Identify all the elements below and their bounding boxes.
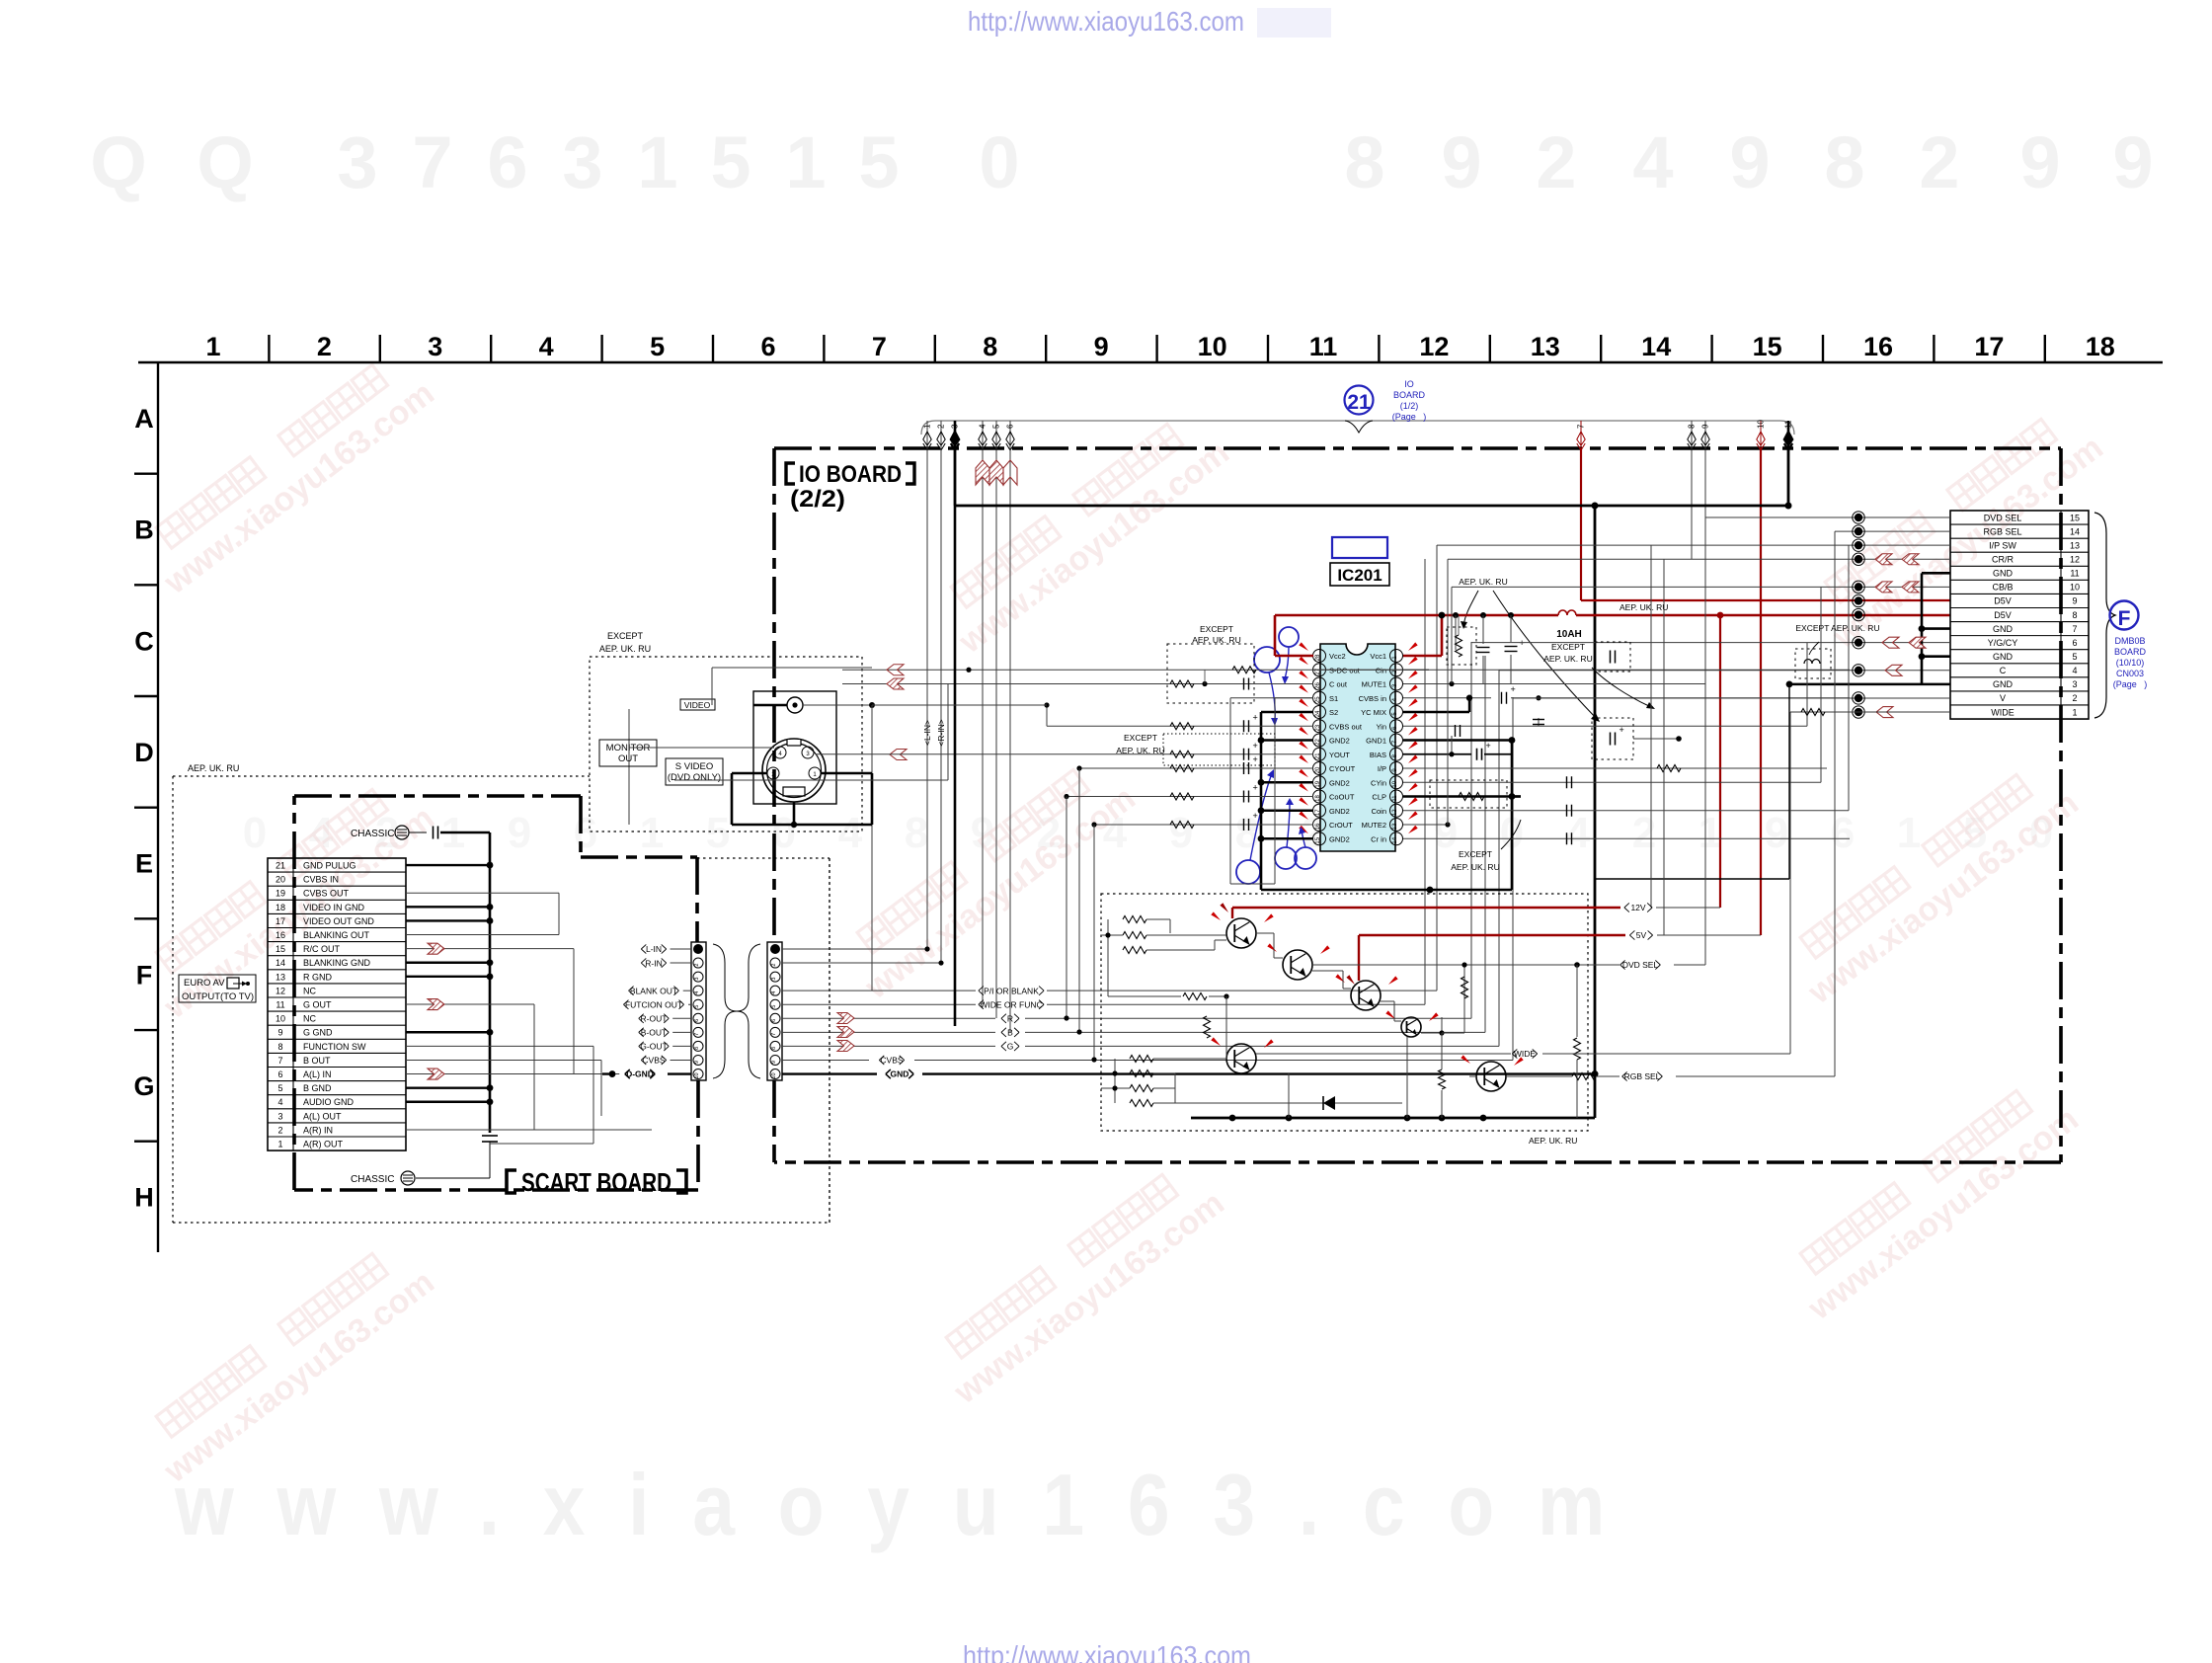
svg-text:FUNCTION SW: FUNCTION SW: [303, 1042, 366, 1052]
svg-text:13: 13: [1531, 332, 1560, 361]
svg-text:GND1: GND1: [1366, 737, 1386, 746]
vertical wire 3 thick: [954, 449, 957, 506]
thick continuation of wire3: [954, 506, 957, 1026]
svg-text:15: 15: [276, 944, 285, 954]
S-video pins: [774, 747, 786, 758]
svg-text:G-OUT: G-OUT: [640, 1042, 667, 1052]
wire video jack left: [753, 704, 787, 707]
vertical wire 7 red: [1580, 449, 1582, 600]
EXCEPT box left of IC (middle): [1163, 734, 1275, 765]
transistor Q4: [1401, 1017, 1421, 1037]
svg-text:EURO AV: EURO AV: [184, 978, 225, 989]
svg-text:10: 10: [1392, 780, 1398, 787]
svg-text:7: 7: [872, 332, 887, 361]
svg-text:S VIDEO: S VIDEO: [675, 761, 714, 772]
svg-text:4: 4: [838, 809, 863, 857]
svg-text:9: 9: [1729, 121, 1770, 203]
strip label G-OUT: [639, 1042, 670, 1051]
IC pin 2 right: [1390, 664, 1403, 676]
svg-text:AEP. UK. RU: AEP. UK. RU: [1451, 862, 1499, 872]
svg-text:6: 6: [487, 121, 527, 203]
top drop wire 5: [995, 421, 997, 449]
thick bus y=512: [955, 505, 1788, 508]
svg-text:<R-IN>: <R-IN>: [936, 719, 946, 746]
svg-text:12: 12: [276, 986, 285, 995]
svg-text:BLANK OUT: BLANK OUT: [630, 986, 677, 995]
RC into pin 20: [1079, 767, 1313, 769]
F row 4 wire: [1499, 670, 1950, 672]
strip label R-OUT: [639, 1014, 670, 1023]
svg-text:F: F: [136, 960, 153, 990]
red Vcc wiring: [1275, 655, 1313, 658]
svg-text:CVBS IN: CVBS IN: [303, 875, 339, 885]
svg-text:VIDEO OUT GND: VIDEO OUT GND: [303, 916, 374, 926]
svg-text:4: 4: [979, 424, 987, 429]
svg-text:D: D: [134, 738, 154, 767]
svg-text:13: 13: [276, 972, 285, 982]
svg-text:1: 1: [637, 121, 677, 203]
svg-text:17: 17: [1315, 809, 1321, 816]
svg-text:EXCEPT: EXCEPT: [1124, 733, 1157, 743]
top drop wire 1: [926, 421, 928, 449]
scart row 17 wire thick: [406, 919, 490, 921]
svg-text:R-IN: R-IN: [645, 958, 662, 968]
svg-text:3: 3: [694, 978, 700, 981]
svg-text:BLANKING OUT: BLANKING OUT: [303, 930, 370, 940]
svg-text:8: 8: [771, 1047, 777, 1050]
svg-text:20: 20: [276, 875, 285, 885]
SCART gnd bus vertical: [489, 832, 492, 1133]
svg-text:WIDE: WIDE: [1991, 707, 2014, 717]
svg-text:5: 5: [694, 1005, 700, 1008]
top drop wire 2: [940, 421, 942, 449]
svg-text:1: 1: [2072, 707, 2077, 717]
svg-text:22: 22: [1315, 739, 1321, 746]
svg-text:10: 10: [1757, 420, 1766, 429]
transistor interconnects: [1107, 950, 1109, 996]
strip label B-OUT: [639, 1028, 670, 1037]
svg-text:NC: NC: [303, 1014, 316, 1024]
svg-text:11: 11: [1392, 795, 1398, 802]
IC pin 1 right: [1390, 650, 1403, 663]
svg-text:7: 7: [412, 121, 452, 203]
scart row 11 wire thin: [406, 1003, 534, 1005]
svg-text:Coin: Coin: [1372, 807, 1386, 816]
dotted AEP.UK.RU region: [173, 775, 590, 777]
svg-text:5: 5: [992, 424, 1001, 429]
strip label FUTCION OUT: [623, 1000, 683, 1009]
svg-text:5: 5: [771, 1005, 777, 1008]
12V red: [1232, 907, 1620, 909]
svg-text:YC MIX: YC MIX: [1361, 708, 1386, 717]
svg-text:19: 19: [1315, 780, 1321, 787]
svg-text:G OUT: G OUT: [303, 1000, 332, 1010]
IC pin 20 left: [1313, 762, 1326, 775]
svg-text:3: 3: [337, 121, 377, 203]
svg-text:8: 8: [1824, 121, 1864, 203]
svg-text:+: +: [1253, 811, 1258, 821]
vertical wires 8,9: [1691, 449, 1693, 559]
watermark top url: [1257, 8, 1331, 38]
F gnd thick net: [1921, 573, 1924, 684]
svg-text:A(L) OUT: A(L) OUT: [303, 1111, 342, 1121]
svg-text:6: 6: [1831, 809, 1855, 857]
F row 14 wire: [1835, 530, 1950, 532]
svg-text:P/I OR BLANK: P/I OR BLANK: [984, 986, 1039, 995]
svg-text:12: 12: [1392, 809, 1398, 816]
IC pin 24 left: [1313, 706, 1326, 719]
svg-text:2: 2: [277, 1125, 282, 1135]
svg-text:CB/B: CB/B: [1992, 583, 2013, 593]
svg-text:11: 11: [1309, 332, 1338, 361]
svg-text:16: 16: [1315, 823, 1321, 830]
svg-text:1: 1: [785, 121, 826, 203]
svg-text:6: 6: [277, 1069, 282, 1079]
svg-text:4: 4: [539, 332, 554, 361]
svg-text:10: 10: [771, 1072, 777, 1078]
svg-text:AEP. UK. RU: AEP. UK. RU: [188, 763, 239, 773]
svg-text:RGB SEL: RGB SEL: [1983, 526, 2021, 536]
svg-text:A(R) IN: A(R) IN: [303, 1125, 333, 1135]
svg-text:G GND: G GND: [303, 1028, 333, 1038]
IC pin 11 right: [1390, 790, 1403, 803]
IC pin 9 right: [1390, 762, 1403, 775]
svg-text:B OUT: B OUT: [303, 1056, 331, 1066]
IC pin 17 left: [1313, 804, 1326, 817]
RC into pin 21: [816, 753, 1313, 755]
SCART BOARD title: [507, 1170, 516, 1193]
EURO AV label box: [179, 975, 256, 1002]
IC pin 21 left: [1313, 748, 1326, 760]
svg-text:4: 4: [2072, 666, 2077, 675]
svg-text:http://www.xiaoyu163.com: http://www.xiaoyu163.com: [968, 6, 1244, 37]
scart row 18 wire thick: [406, 906, 490, 908]
svg-text:G: G: [1007, 1042, 1014, 1052]
svg-text:12V: 12V: [1630, 903, 1645, 912]
svg-text:Y/G/CY: Y/G/CY: [1988, 638, 2018, 648]
svg-text:19: 19: [276, 889, 285, 899]
svg-text:Vcc2: Vcc2: [1329, 652, 1346, 661]
svg-text:6: 6: [694, 1019, 700, 1022]
svg-text:21: 21: [276, 861, 285, 871]
strip label BLANK OUT: [629, 987, 679, 995]
F row 12 wire: [1448, 558, 1950, 560]
svg-text:2: 2: [694, 964, 700, 967]
svg-text:H: H: [134, 1183, 154, 1213]
transistor misc wires: [1225, 933, 1227, 940]
svg-text:<L-IN>: <L-IN>: [922, 720, 932, 746]
svg-text:IC201: IC201: [1337, 566, 1382, 585]
video RCA jack: [787, 697, 803, 713]
frame ruler top: [138, 361, 2163, 363]
svg-text:1: 1: [1698, 809, 1722, 857]
svg-text:F: F: [2118, 607, 2131, 630]
svg-text:9: 9: [2019, 121, 2060, 203]
svg-text:SCART BOARD: SCART BOARD: [521, 1167, 671, 1197]
svg-text:2: 2: [1919, 121, 1959, 203]
svg-text:24: 24: [1315, 710, 1321, 717]
svg-text:D5V: D5V: [1994, 596, 2012, 606]
svg-text:DVD SEL: DVD SEL: [1984, 513, 2022, 522]
svg-text:+: +: [1619, 725, 1624, 735]
scart row 14 wire thick: [406, 962, 490, 964]
svg-text:http://www.xiaoyu163.com: http://www.xiaoyu163.com: [963, 1640, 1251, 1663]
5V red: [1359, 934, 1625, 936]
MONITOR OUT label box: [599, 740, 657, 766]
svg-text:0: 0: [979, 121, 1019, 203]
long cross wires: [872, 704, 1047, 706]
top drop wire 7: [1580, 421, 1582, 449]
svg-text:4: 4: [771, 991, 777, 994]
svg-text:12: 12: [2070, 554, 2080, 564]
IC pin 7 right: [1390, 734, 1403, 747]
svg-text:OUT: OUT: [618, 753, 638, 764]
svg-text:OUTPUT(TO TV): OUTPUT(TO TV): [182, 991, 254, 1002]
svg-text:BOARD: BOARD: [1393, 390, 1426, 400]
svg-text:CYOUT: CYOUT: [1329, 764, 1356, 773]
svg-text:5V: 5V: [1636, 930, 1647, 940]
svg-text:3: 3: [2072, 679, 2077, 689]
svg-text:7: 7: [771, 1033, 777, 1036]
monitor out vertical wire: [628, 709, 630, 825]
IO BOARD boundary box (dash-dot): [774, 446, 2061, 450]
svg-text:AEP. UK. RU: AEP. UK. RU: [1459, 577, 1507, 587]
svg-text:1: 1: [1897, 809, 1921, 857]
svg-text:NC: NC: [303, 986, 316, 995]
transistor Q3: [1351, 981, 1381, 1010]
IC pin 27 left: [1313, 664, 1326, 676]
svg-text:A: A: [134, 404, 154, 434]
svg-text:(2/2): (2/2): [790, 486, 845, 513]
svg-text:2: 2: [317, 332, 332, 361]
svg-text:AEP. UK. RU: AEP. UK. RU: [1543, 654, 1592, 664]
svg-text:Cr in: Cr in: [1371, 834, 1386, 843]
svg-text:www.xiaoyu163.com: www.xiaoyu163.com: [174, 1456, 1648, 1553]
svg-text:AEP. UK. RU: AEP. UK. RU: [1619, 602, 1668, 612]
top drop wire 8: [1691, 421, 1693, 449]
svg-text:1: 1: [277, 1140, 282, 1149]
scart row 7 wire thin: [406, 1059, 601, 1061]
svg-text:R-OUT: R-OUT: [641, 1014, 668, 1024]
scart row 19 wire thin: [406, 892, 559, 894]
bus bottom cap + chassis: [482, 1135, 498, 1137]
svg-text:21: 21: [1315, 752, 1321, 759]
vertical wire 2 to strip pin2: [940, 449, 942, 963]
red D5V row9 wire: [1581, 599, 1950, 601]
svg-text:CLP: CLP: [1372, 793, 1386, 802]
svg-text:+: +: [1253, 783, 1258, 793]
svg-text:CVBS in: CVBS in: [1359, 694, 1386, 703]
thick gnd bus bottom: [1191, 1117, 1595, 1120]
vertical wire 11 thick: [1787, 449, 1790, 506]
svg-text:GND2: GND2: [1329, 737, 1350, 746]
svg-text:2: 2: [2072, 693, 2077, 703]
svg-text:C: C: [134, 626, 154, 656]
scart row 4 wire thick: [406, 1101, 490, 1103]
strip label L-IN: [641, 944, 666, 953]
strip brackets: [713, 944, 737, 1078]
svg-text:AUDIO GND: AUDIO GND: [303, 1097, 355, 1107]
svg-text:10: 10: [694, 1072, 700, 1078]
pin3 wire right: [890, 750, 907, 760]
F row 2 wire: [1513, 697, 1950, 699]
IO BOARD title: [786, 463, 795, 484]
svg-text:9: 9: [277, 1028, 282, 1038]
transistor Q5: [1226, 1044, 1256, 1073]
IC pin 26 left: [1313, 677, 1326, 690]
svg-text:5: 5: [858, 121, 899, 203]
svg-text:(Page ): (Page ): [1392, 412, 1427, 422]
svg-text:CrOUT: CrOUT: [1329, 821, 1353, 830]
svg-text:C out: C out: [1329, 680, 1348, 689]
SCART 21-pin table: [268, 858, 406, 1150]
svg-text:16: 16: [1863, 332, 1893, 361]
svg-text:GND: GND: [1993, 679, 2014, 689]
svg-text:18: 18: [1315, 795, 1321, 802]
F row 15 wire: [1705, 516, 1950, 518]
svg-text:DMB0B: DMB0B: [2114, 636, 2145, 646]
svg-text:Q: Q: [197, 121, 254, 203]
svg-text:8: 8: [694, 1047, 700, 1050]
svg-text:17: 17: [276, 916, 285, 926]
svg-text:B-OUT: B-OUT: [641, 1028, 667, 1038]
svg-text:7: 7: [277, 1056, 282, 1066]
connector strip right: [767, 942, 782, 1080]
transistor Q6: [1476, 1062, 1506, 1091]
svg-text:Q: Q: [90, 121, 147, 203]
svg-text:CN003: CN003: [2116, 669, 2144, 678]
svg-text:3: 3: [562, 121, 602, 203]
svg-text:11: 11: [1784, 420, 1793, 429]
top bracket: [921, 421, 1794, 435]
svg-text:(1/2): (1/2): [1400, 401, 1419, 411]
svg-text:I/P: I/P: [1378, 764, 1386, 773]
scart row 15 wire thin: [406, 948, 574, 950]
svg-text:R: R: [1007, 1014, 1013, 1024]
scart row 9 wire thick: [406, 1031, 490, 1033]
svg-text:2: 2: [1632, 809, 1656, 857]
svg-text:CHASSIC: CHASSIC: [351, 829, 394, 839]
svg-text:10: 10: [276, 1014, 285, 1024]
svg-text:8: 8: [905, 809, 928, 857]
resistor group top-left: [1123, 916, 1146, 923]
svg-text:13: 13: [2070, 540, 2080, 550]
IC pin 16 left: [1313, 819, 1326, 831]
svg-text:+: +: [1253, 741, 1258, 751]
svg-text:16: 16: [276, 930, 285, 940]
svg-text:+: +: [1511, 684, 1516, 694]
svg-text:0: 0: [243, 809, 267, 857]
svg-text:BIAS: BIAS: [1370, 751, 1386, 759]
svg-text:6: 6: [2072, 638, 2077, 648]
IC pin 3 right: [1390, 677, 1403, 690]
svg-text:BOARD: BOARD: [2114, 647, 2147, 657]
transistor Q1: [1226, 918, 1256, 948]
IC pin 15 left: [1313, 832, 1326, 845]
svg-text:D-GND: D-GND: [626, 1069, 654, 1079]
svg-text:15: 15: [1753, 332, 1782, 361]
transistor area dotted box: [1101, 894, 1588, 1131]
diode: [1294, 1102, 1402, 1104]
svg-text:VIDEO IN GND: VIDEO IN GND: [303, 903, 365, 912]
svg-text:2: 2: [1536, 121, 1576, 203]
svg-text:3: 3: [277, 1111, 282, 1121]
svg-text:+: +: [1253, 712, 1258, 722]
svg-text:15: 15: [1315, 836, 1321, 843]
IC pin 5 right: [1390, 706, 1403, 719]
svg-text:11: 11: [276, 1000, 284, 1010]
svg-text:GND: GND: [891, 1069, 909, 1079]
svg-text:CVBS out: CVBS out: [1329, 722, 1363, 731]
svg-text:7: 7: [1577, 424, 1586, 429]
svg-text:5: 5: [706, 809, 730, 857]
svg-text:VIDEO: VIDEO: [684, 700, 711, 710]
red chevrons near F table: [1875, 554, 1892, 565]
wire weave verticals: [533, 1004, 535, 1130]
IC pin 10 right: [1390, 776, 1403, 789]
wire bundle right of IC: [1453, 612, 1459, 618]
svg-text:R/C OUT: R/C OUT: [303, 944, 341, 954]
svg-text:9: 9: [2072, 596, 2077, 606]
svg-text:6: 6: [574, 809, 597, 857]
bundle verticals: [1650, 545, 1652, 908]
svg-text:9: 9: [1701, 424, 1710, 429]
svg-text:B: B: [1007, 1028, 1013, 1038]
vertical wire 1 to strip pin1: [926, 449, 928, 949]
svg-text:18: 18: [276, 903, 285, 912]
svg-text:6: 6: [1006, 424, 1015, 429]
svg-text:14: 14: [1392, 836, 1398, 843]
svg-text:5: 5: [2072, 652, 2077, 662]
RC into pin 16: [1094, 824, 1313, 826]
svg-text:CR/R: CR/R: [1992, 554, 2014, 564]
svg-text:20: 20: [1315, 766, 1321, 773]
svg-text:14: 14: [2070, 526, 2080, 536]
svg-text:Yin: Yin: [1376, 722, 1386, 731]
IC201 value box (blue): [1332, 537, 1387, 558]
svg-text:Vcc1: Vcc1: [1370, 652, 1386, 661]
svg-text:13: 13: [1392, 823, 1398, 830]
svg-text:EXCEPT: EXCEPT: [1551, 642, 1585, 652]
svg-text:11: 11: [2070, 569, 2079, 579]
svg-text:8: 8: [983, 332, 997, 361]
svg-text:S2: S2: [1329, 708, 1338, 717]
scart row 13 wire thick: [406, 976, 490, 978]
svg-text:AEP. UK. RU: AEP. UK. RU: [599, 644, 651, 654]
svg-text:MUTE2: MUTE2: [1362, 821, 1386, 830]
right strip pin wires: [782, 948, 927, 950]
F table brace: [2094, 513, 2115, 718]
svg-text:28: 28: [1315, 654, 1321, 661]
svg-text:(10/10): (10/10): [2116, 658, 2145, 668]
svg-text:5: 5: [650, 332, 665, 361]
svg-text:6: 6: [771, 1019, 777, 1022]
scart row 21 wire thick: [406, 864, 490, 866]
IC201 chip body: [1320, 644, 1395, 851]
svg-text:CHASSIC: CHASSIC: [351, 1174, 394, 1185]
RC into pin 18: [1066, 796, 1313, 798]
svg-text:9: 9: [1441, 121, 1481, 203]
DVD SEL wire: [1313, 964, 1619, 966]
strip label R-IN: [641, 958, 666, 967]
svg-text:21: 21: [1347, 391, 1371, 414]
svg-text:MUTE1: MUTE1: [1362, 680, 1386, 689]
F connector table: [1950, 511, 2089, 719]
red verticals to 12V/5V: [1719, 615, 1721, 908]
IC pin 14 right: [1390, 832, 1403, 845]
IC pin 18 left: [1313, 790, 1326, 803]
svg-text:25: 25: [1315, 696, 1321, 703]
